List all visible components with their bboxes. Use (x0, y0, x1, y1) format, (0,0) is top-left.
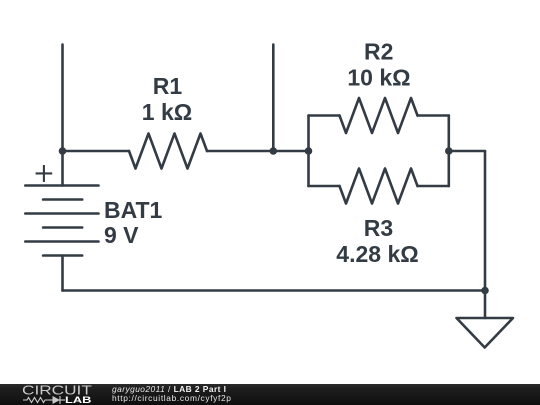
wire bottom (63, 289, 486, 292)
node parallel right (445, 147, 453, 155)
footer bar (0, 384, 540, 405)
resistor R1 (129, 134, 207, 169)
resistor R2 (340, 98, 418, 133)
wire parallel to right edge (449, 150, 485, 153)
svg-text:R1: R1 (153, 73, 183, 99)
footer text (112, 385, 232, 402)
wire R2 right lead (418, 114, 449, 117)
svg-text:10 kΩ: 10 kΩ (347, 64, 410, 90)
wire R1 to parallel network (207, 150, 309, 153)
wire R3 left lead (309, 185, 340, 188)
wire battery to R1 (63, 150, 130, 153)
wire parallel left vertical (307, 116, 310, 187)
CircuitLab logo (0, 384, 100, 405)
node battery/R1 junction (59, 147, 67, 155)
wire R2 left lead (309, 114, 340, 117)
svg-text:BAT1: BAT1 (104, 197, 163, 223)
wire top-middle vertical (272, 45, 275, 152)
wire top-left vertical (61, 45, 64, 152)
node parallel left (305, 147, 313, 155)
wire right vertical (484, 151, 487, 291)
node mid junction (270, 147, 278, 155)
battery plus sign (36, 165, 53, 182)
svg-text:R3: R3 (364, 215, 393, 241)
wire parallel right vertical (447, 116, 450, 187)
svg-text:R2: R2 (364, 38, 393, 64)
svg-text:4.28 kΩ: 4.28 kΩ (336, 241, 418, 267)
wire R3 right lead (418, 185, 449, 188)
node ground junction (481, 287, 489, 295)
svg-text:1 kΩ: 1 kΩ (142, 99, 192, 125)
svg-text:9 V: 9 V (104, 222, 139, 248)
resistor R3 (340, 169, 418, 204)
svg-text:LAB: LAB (65, 395, 91, 405)
battery BAT1 (25, 151, 98, 291)
ground (457, 291, 514, 348)
